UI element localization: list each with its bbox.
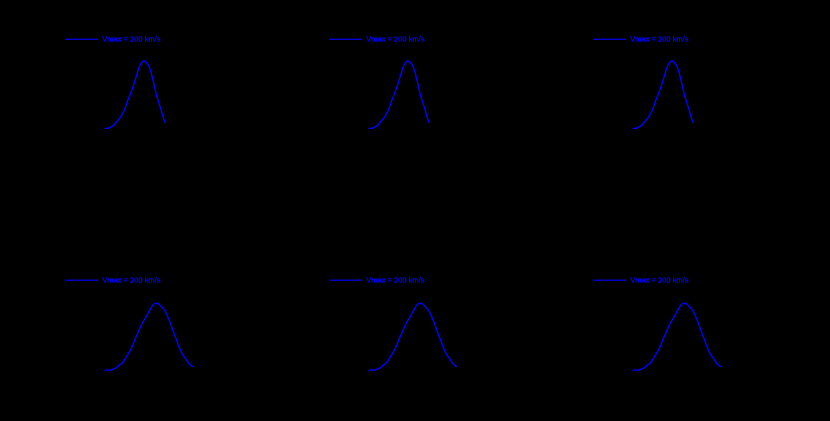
- svg-text:Vmax = 200 km/s: Vmax = 200 km/s: [630, 35, 688, 44]
- svg-text:Vmax = 200 km/s: Vmax = 200 km/s: [102, 276, 160, 285]
- svg-text:Vmax = 200 km/s: Vmax = 200 km/s: [630, 276, 688, 285]
- svg-text:Vmax = 200 km/s: Vmax = 200 km/s: [366, 276, 424, 285]
- svg-text:Vmax = 200 km/s: Vmax = 200 km/s: [366, 35, 424, 44]
- svg-text:Vmax = 200 km/s: Vmax = 200 km/s: [102, 35, 160, 44]
